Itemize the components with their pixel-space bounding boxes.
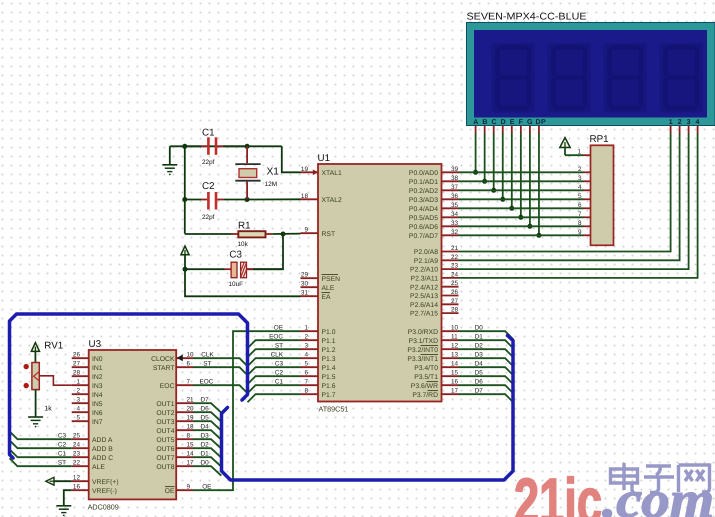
svg-text:ADD A: ADD A: [92, 437, 113, 444]
capacitor C3 (polarized): [185, 262, 283, 278]
power symbol VCC at RV1: [31, 343, 39, 363]
svg-text:P2.7/A15: P2.7/A15: [410, 311, 438, 318]
svg-text:CLK: CLK: [201, 351, 214, 358]
svg-text:P2.5/A13: P2.5/A13: [410, 293, 438, 300]
svg-text:29: 29: [301, 272, 309, 279]
svg-text:D5: D5: [201, 414, 210, 421]
svg-text:P1.0: P1.0: [322, 329, 336, 336]
watermark zi (子): [644, 466, 674, 493]
svg-text:D3: D3: [475, 351, 484, 358]
svg-text:ADD B: ADD B: [92, 446, 113, 453]
U1 pin 32 P0.7/AD7: [409, 229, 459, 240]
svg-text:27: 27: [451, 298, 459, 305]
svg-text:15: 15: [451, 370, 459, 377]
svg-text:20: 20: [187, 406, 195, 413]
svg-text:VREF(-): VREF(-): [92, 488, 117, 495]
wire P1.1 from bus: [248, 333, 301, 348]
svg-text:19: 19: [187, 415, 195, 422]
svg-text:P0.2/AD2: P0.2/AD2: [409, 188, 438, 195]
wire gnd vertical C1-C2-R1: [184, 146, 186, 233]
svg-text:D0: D0: [201, 459, 210, 466]
display segment pin B + wire to P0.1: [482, 126, 487, 184]
svg-text:IN4: IN4: [92, 392, 103, 399]
RP1 pin 9 stub: [578, 229, 591, 236]
svg-text:3: 3: [76, 397, 80, 404]
svg-text:3: 3: [304, 343, 308, 350]
svg-text:P0.3/AD3: P0.3/AD3: [409, 197, 438, 204]
display segment pin G + wire to P0.6: [527, 126, 532, 229]
display digit pin 4 + wire to P2.3: [459, 126, 698, 278]
svg-text:14: 14: [451, 361, 459, 368]
svg-text:8: 8: [187, 433, 191, 440]
wire CLK from U3 to bus: [193, 351, 248, 366]
U3 pin 4 IN6: [72, 406, 103, 417]
display segment pin DP + wire to P0.7: [536, 126, 541, 238]
svg-text:28: 28: [73, 370, 81, 377]
wire D1 from P3.1 to bus: [459, 333, 514, 348]
wire D4 from P3.4 to bus: [459, 360, 514, 375]
wire D2 from U3 OUT6 to bus: [193, 441, 221, 457]
svg-text:P3.4/T0: P3.4/T0: [414, 365, 438, 372]
svg-text:9: 9: [187, 484, 191, 491]
wire D2 from P3.2 to bus: [459, 342, 514, 357]
svg-text:14: 14: [187, 451, 195, 458]
U1 pin 36 P0.3/AD3: [409, 193, 459, 204]
svg-text:12M: 12M: [265, 181, 277, 188]
display segment pin A + wire to P0.0: [473, 126, 478, 175]
svg-text:U3: U3: [89, 339, 102, 350]
wire D6 from P3.6 to bus: [459, 378, 514, 393]
U1 pin 1 P1.0: [301, 325, 336, 336]
U1 XTAL1 input arrow: [313, 170, 319, 176]
svg-text:P1.7: P1.7: [322, 392, 336, 399]
svg-text:1: 1: [76, 379, 80, 386]
svg-text:D5: D5: [475, 369, 484, 376]
svg-text:1k: 1k: [44, 405, 52, 413]
U3 pin 10 CLOCK: [151, 352, 194, 363]
U1 pin 7 P1.6: [301, 379, 336, 390]
svg-text:D4: D4: [201, 423, 210, 430]
svg-text:6: 6: [187, 361, 191, 368]
U1 pin 31 EA: [301, 290, 332, 301]
svg-text:10k: 10k: [238, 241, 249, 248]
svg-text:26: 26: [451, 289, 459, 296]
svg-text:C1: C1: [202, 128, 215, 139]
svg-text:24: 24: [451, 271, 459, 278]
svg-text:ST: ST: [203, 360, 211, 367]
capacitor C2 labels: [202, 181, 215, 221]
svg-text:34: 34: [451, 211, 459, 218]
svg-text:P2.1/A9: P2.1/A9: [414, 258, 438, 265]
svg-text:D7: D7: [201, 396, 210, 403]
U3 pin 26 IN0: [72, 352, 103, 363]
wire D0 from U3 OUT8 to bus: [193, 459, 221, 475]
svg-text:38: 38: [451, 175, 459, 182]
svg-text:31: 31: [301, 290, 309, 297]
svg-text:27: 27: [73, 361, 81, 368]
display digit pin 3 + wire to P2.2: [459, 126, 689, 270]
svg-text:P2.4/A12: P2.4/A12: [410, 284, 438, 291]
wire ST from U3 to bus: [193, 360, 248, 375]
watermark .com: [602, 472, 714, 517]
svg-text:OUT5: OUT5: [156, 437, 174, 444]
U1 pin 23 P2.2/A10: [410, 263, 459, 274]
svg-text:26: 26: [73, 352, 81, 359]
svg-text:30: 30: [301, 281, 309, 288]
svg-text:12: 12: [451, 343, 459, 350]
power symbol VCC at C3: [181, 246, 189, 269]
junction C1 right / X1 top: [245, 144, 250, 149]
wire P1.7 from bus: [248, 394, 301, 402]
svg-text:22pf: 22pf: [202, 214, 215, 221]
svg-text:RST: RST: [322, 231, 336, 238]
display digit pin labels 1234: [669, 119, 705, 126]
U1 pin 39 P0.0/AD0: [409, 166, 459, 177]
display segment pin C + wire to P0.2: [491, 126, 496, 193]
U3 pin 16 VREF(-): [72, 484, 117, 495]
display segment pin F + wire to P0.5: [518, 126, 523, 220]
svg-text:IN6: IN6: [92, 410, 103, 417]
svg-text:IN5: IN5: [92, 401, 103, 408]
svg-text:P0.4/AD4: P0.4/AD4: [409, 206, 438, 213]
U1 pin 13 P3.3/INT1: [407, 352, 458, 363]
wire VCC down to EA: [185, 269, 301, 296]
ground symbol under VREF-: [56, 506, 71, 517]
U1 pin 18 XTAL2: [301, 193, 342, 204]
svg-text:28: 28: [451, 307, 459, 314]
svg-text:P3.5/T1: P3.5/T1: [414, 374, 438, 381]
U3 pin 12 VREF(+): [72, 475, 119, 486]
U3 pin 6 START: [153, 361, 193, 372]
svg-text:C1: C1: [58, 450, 67, 457]
svg-text:D4: D4: [475, 360, 484, 367]
svg-text:D2: D2: [475, 342, 484, 349]
svg-text:D2: D2: [201, 441, 210, 448]
op U1 AT89C51 label: [318, 153, 331, 164]
junction R1 right / RST: [281, 232, 286, 237]
wire P1.6 from bus: [248, 378, 301, 393]
svg-text:P0.6/AD6: P0.6/AD6: [409, 224, 438, 231]
watermark dian (电): [611, 463, 643, 494]
ground symbol under RV1: [28, 417, 43, 428]
svg-text:D7: D7: [475, 387, 484, 394]
U3 pin 20 OUT2: [156, 406, 194, 417]
svg-text:24: 24: [73, 442, 81, 449]
svg-text:DP: DP: [536, 119, 547, 126]
svg-text:CLOCK: CLOCK: [151, 356, 175, 363]
svg-text:ALE: ALE: [322, 285, 335, 292]
ground symbol top-left: [162, 146, 177, 175]
svg-text:X1: X1: [267, 167, 280, 178]
svg-text:22: 22: [73, 460, 81, 467]
U3 pin 27 IN1: [72, 361, 103, 372]
wire D7 from P3.7 to bus: [459, 387, 514, 402]
svg-text:START: START: [153, 365, 175, 372]
U1 pin 34 P0.5/AD5: [409, 211, 459, 222]
svg-text:P0.5/AD5: P0.5/AD5: [409, 215, 438, 222]
svg-text:25: 25: [73, 433, 81, 440]
wire D5 from P3.5 to bus: [459, 369, 514, 384]
RV1 value 1k: [44, 405, 52, 413]
display segment pin E + wire to P0.4: [509, 126, 514, 211]
svg-text:23: 23: [451, 263, 459, 270]
svg-text:2: 2: [304, 334, 308, 341]
svg-text:ABCDEFG: ABCDEFG: [473, 119, 536, 126]
wire VREF- to ground: [64, 490, 72, 506]
watermark wang (网): [679, 465, 710, 492]
U1 pin 35 P0.4/AD4: [409, 202, 459, 213]
junction C2 right / X1 bottom: [245, 197, 250, 202]
svg-text:15: 15: [187, 442, 195, 449]
svg-text:P0.7/AD7: P0.7/AD7: [409, 233, 438, 240]
wire D0 from P3.0 to bus: [459, 324, 514, 339]
svg-text:ST: ST: [275, 342, 283, 349]
RP1 pin 7 stub: [578, 211, 591, 218]
wire EOC from U3 to bus: [193, 378, 248, 393]
U3 pin 17 OUT8: [156, 460, 194, 471]
svg-text:21ic: 21ic: [514, 465, 602, 517]
display segment pin labels ABCDEFG DP: [473, 119, 546, 126]
svg-text:10: 10: [187, 352, 195, 359]
U3 pin 21 OUT1: [156, 397, 194, 408]
svg-text:22pf: 22pf: [202, 159, 215, 166]
svg-text:D1: D1: [201, 450, 210, 457]
crystal X1 labels: [265, 167, 280, 188]
svg-text:19: 19: [301, 166, 309, 173]
U1 pin 37 P0.2/AD2: [409, 184, 459, 195]
svg-text:39: 39: [451, 166, 459, 173]
U1 pin 38 P0.1/AD1: [409, 175, 459, 186]
U1 pin 25 P2.4/A12: [410, 280, 459, 291]
svg-text:PSEN: PSEN: [322, 276, 341, 283]
svg-text:OUT6: OUT6: [156, 446, 174, 453]
wire P0.1 to RP1 pin 3: [459, 180, 584, 182]
svg-text:1234: 1234: [669, 119, 705, 126]
svg-text:C3: C3: [275, 360, 284, 367]
U3 pin 14 OUT7: [156, 451, 194, 462]
U1 pin 15 P3.5/T1: [414, 370, 458, 381]
svg-text:R1: R1: [238, 221, 251, 232]
U1 pin 22 P2.1/A9: [414, 254, 459, 265]
svg-text:6: 6: [304, 370, 308, 377]
svg-text:13: 13: [451, 352, 459, 359]
wire P0.0 to RP1 pin 2: [459, 171, 584, 173]
svg-text:P2.3/A11: P2.3/A11: [411, 276, 439, 283]
svg-text:21: 21: [187, 397, 195, 404]
svg-text:P3.2/INT0: P3.2/INT0: [407, 347, 438, 354]
svg-text:ST: ST: [58, 459, 66, 466]
U3 pin 28 IN2: [72, 370, 103, 381]
RV1 terminal dot lower: [24, 383, 29, 388]
U1 pin 6 P1.5: [301, 370, 336, 381]
svg-text:22: 22: [451, 254, 459, 261]
capacitor C1: [185, 137, 247, 155]
potentiometer RV1 body: [32, 363, 39, 390]
wire D1 from U3 OUT7 to bus: [193, 450, 221, 466]
svg-text:C2: C2: [202, 181, 215, 192]
svg-text:VREF(+): VREF(+): [92, 479, 119, 486]
U3 pin 22 ALE: [72, 460, 106, 471]
U1 pin 30 ALE: [301, 281, 335, 292]
U1 pin 10 P3.0/RXD: [408, 325, 459, 336]
svg-text:D6: D6: [475, 378, 484, 385]
watermark 21ic: [514, 465, 602, 517]
svg-text:P1.2: P1.2: [322, 347, 336, 354]
U1 pin 17 P3.7/RD: [412, 388, 458, 399]
U3 pin 8 OUT5: [156, 433, 193, 444]
wire ST from bus to U3: [10, 458, 72, 466]
U1 pin 4 P1.3: [301, 352, 336, 363]
svg-text:10: 10: [451, 325, 459, 332]
capacitor C2: [185, 192, 247, 210]
power symbol (left arrow) at VREF+: [46, 477, 54, 485]
U3 pin 2 IN4: [72, 388, 103, 399]
svg-text:OE: OE: [202, 483, 211, 490]
U1 pin 26 P2.5/A13: [410, 289, 459, 300]
svg-text:35: 35: [451, 202, 459, 209]
U1 pin 3 P1.2: [301, 343, 336, 354]
U3 pin 3 IN5: [72, 397, 103, 408]
RP1 pin 3 stub: [578, 175, 591, 182]
svg-text:C3: C3: [58, 432, 67, 439]
U1 pin 8 P1.7: [301, 388, 336, 399]
svg-text:18: 18: [187, 424, 195, 431]
svg-text:8: 8: [304, 388, 308, 395]
U1 pin 11 P3.1/TXD: [409, 334, 459, 345]
svg-text:ADC0809: ADC0809: [88, 503, 119, 512]
RP1 pin 6 stub: [578, 202, 591, 209]
svg-text:1: 1: [577, 148, 581, 155]
U3 pin 5 IN7: [72, 415, 103, 426]
RV1 terminal dot upper: [24, 364, 29, 369]
capacitor C1 labels: [202, 128, 215, 167]
U1 part value AT89C51: [319, 405, 349, 414]
svg-text:D6: D6: [201, 405, 210, 412]
U3 part value ADC0809: [88, 503, 119, 512]
wire P0.3 to RP1 pin 5: [459, 198, 584, 200]
display segment pin D + wire to P0.3: [500, 126, 505, 202]
wire D4 from U3 OUT4 to bus: [193, 423, 221, 439]
wire C1 from bus to U3: [10, 449, 72, 457]
resistor pack RP1 label: [590, 134, 609, 145]
U1 pin 12 P3.2/INT0: [407, 343, 458, 354]
svg-text:4: 4: [304, 352, 308, 359]
bus B (data D0-D7): [222, 336, 514, 481]
svg-text:P3.0/RXD: P3.0/RXD: [408, 329, 438, 336]
display DS1 label SEVEN-MPX4-CC-BLUE: [467, 12, 588, 23]
svg-text:P1.5: P1.5: [322, 374, 336, 381]
svg-text:P2.2/A10: P2.2/A10: [410, 267, 438, 274]
resistor R1: [185, 231, 301, 237]
svg-text:OUT1: OUT1: [156, 401, 174, 408]
svg-text:IN1: IN1: [92, 365, 103, 372]
wire OE from U3 to P1.0: [193, 331, 301, 490]
svg-text:11: 11: [451, 334, 458, 341]
svg-text:P1.3: P1.3: [322, 356, 336, 363]
svg-text:CLK: CLK: [271, 351, 284, 358]
bus A (address/control): [10, 314, 248, 458]
wire VREF+: [54, 480, 72, 482]
svg-text:OE: OE: [165, 488, 175, 495]
svg-text:OUT8: OUT8: [156, 464, 174, 471]
U3 pin 19 OUT3: [156, 415, 194, 426]
svg-text:IN2: IN2: [92, 374, 103, 381]
U1 pin 14 P3.4/T0: [414, 361, 458, 372]
svg-text:2: 2: [76, 388, 80, 395]
wire C2/X1 to XTAL2: [247, 198, 300, 200]
svg-text:P1.4: P1.4: [322, 365, 336, 372]
svg-text:P3.1/TXD: P3.1/TXD: [409, 338, 439, 345]
U3 pin 15 OUT6: [156, 442, 194, 453]
svg-text:36: 36: [451, 193, 459, 200]
display digit pin 1 + wire to P2.0: [459, 126, 671, 252]
label OE on P1.0 wire: [274, 324, 283, 331]
svg-text:OUT4: OUT4: [156, 428, 174, 435]
wire P0.4 to RP1 pin 6: [459, 207, 584, 209]
U3 pin 18 OUT4: [156, 424, 194, 435]
svg-text:AT89C51: AT89C51: [319, 405, 349, 414]
svg-text:7: 7: [187, 379, 191, 386]
wire P0.2 to RP1 pin 4: [459, 189, 584, 191]
wire P0.6 to RP1 pin 8: [459, 225, 584, 227]
svg-text:IN3: IN3: [92, 383, 103, 390]
wire C2 from bus to U3: [10, 440, 72, 448]
U3 pin 23 ADD C: [72, 451, 114, 462]
U3 pin 7 EOC: [160, 379, 193, 390]
svg-text:EOC: EOC: [200, 378, 214, 385]
U3 CLOCK input arrow: [177, 355, 183, 362]
svg-text:D3: D3: [201, 432, 210, 439]
svg-text:ADD C: ADD C: [92, 455, 113, 462]
svg-text:32: 32: [451, 229, 459, 236]
svg-text:EA: EA: [322, 294, 332, 301]
svg-text:23: 23: [73, 451, 81, 458]
U1 pin 33 P0.6/AD6: [409, 220, 459, 231]
svg-text:17: 17: [187, 460, 195, 467]
svg-text:1: 1: [304, 325, 308, 332]
wire P1.2 from bus: [248, 342, 301, 357]
U1 pin 28 P2.7/A15: [410, 307, 459, 318]
adc U3 ADC0809 body: [89, 350, 177, 499]
svg-text:D1: D1: [475, 333, 484, 340]
svg-text:OUT2: OUT2: [156, 410, 174, 417]
U1 pin 24 P2.3/A11: [411, 271, 459, 282]
U1 pin 29 PSEN: [301, 272, 341, 283]
adc U3 label: [89, 339, 102, 350]
svg-text:OE: OE: [274, 324, 283, 331]
svg-text:RV1: RV1: [44, 341, 63, 352]
U3 pin 25 ADD A: [72, 433, 113, 444]
wire D3 from U3 OUT5 to bus: [193, 432, 221, 448]
RP1 pin 8 stub: [578, 220, 591, 227]
wire D6 from U3 OUT2 to bus: [193, 405, 221, 421]
svg-text:EOC: EOC: [160, 383, 175, 390]
wire D5 from U3 OUT3 to bus: [193, 414, 221, 430]
svg-text:C3: C3: [229, 250, 242, 261]
U1 pin 21 P2.0/A8: [414, 245, 459, 256]
wire RV1 bottom to ground: [35, 390, 37, 417]
svg-text:P1.1: P1.1: [322, 338, 336, 345]
wire RV1 wiper to U3 IN3: [39, 376, 71, 385]
resistor pack RP1 body: [591, 145, 614, 245]
svg-text:XTAL2: XTAL2: [322, 197, 342, 204]
resistor R1 labels: [238, 221, 251, 248]
wire D7 from U3 OUT1 to bus: [193, 396, 221, 412]
svg-text:12: 12: [73, 475, 81, 482]
display ghost digit 4: [660, 43, 704, 113]
svg-text:10uF: 10uF: [229, 281, 244, 288]
U3 pin 9 OE: [165, 484, 193, 495]
